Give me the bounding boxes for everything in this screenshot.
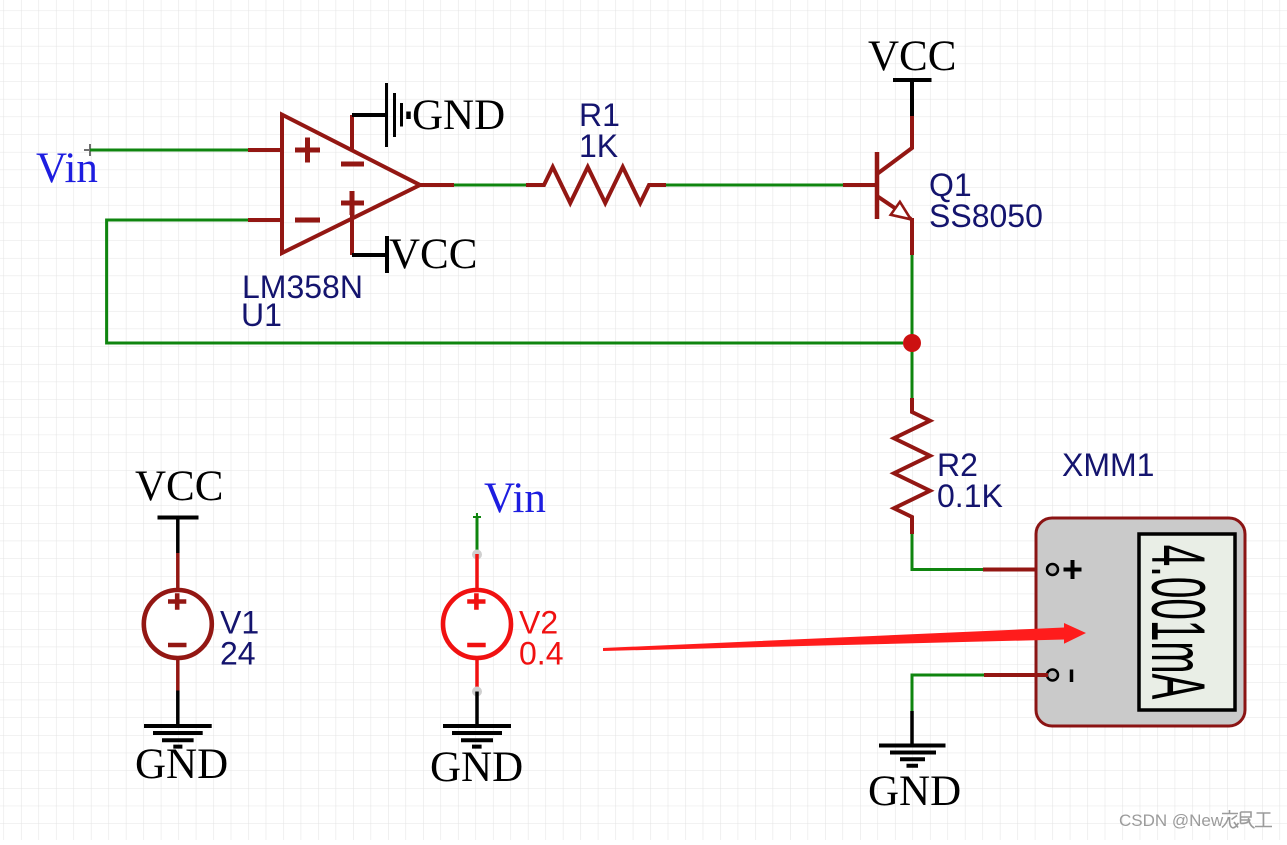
ground symbol (V1) <box>144 726 212 747</box>
wire op-amp - input stub (maroon) <box>248 218 283 222</box>
wire Q1 collector to VCC (black) <box>910 80 914 116</box>
svg-text:0.1K: 0.1K <box>937 478 1003 514</box>
svg-text:1K: 1K <box>579 128 618 164</box>
V2 minus symbol <box>467 643 486 648</box>
transistor Q1 collector <box>877 116 912 174</box>
wire op-amp output to R1 (green) <box>454 184 526 187</box>
svg-text:VCC: VCC <box>389 231 477 278</box>
wire V2 top stub (green) <box>476 517 479 554</box>
wire Vin to op-amp + input (green) <box>90 149 248 152</box>
op-amp V+ supply pin <box>350 215 354 255</box>
svg-text:GND: GND <box>412 92 505 139</box>
wire V1 to GND (black) <box>176 691 180 727</box>
XMM1 + terminal <box>1047 564 1058 575</box>
op-amp V- supply minus symbol <box>341 162 364 167</box>
wire op-amp V+ pin to VCC (black) <box>352 253 387 257</box>
wire Q1 emitter down to junction and R2 (green) <box>911 255 914 398</box>
selection handle dot (V2 bottom) <box>472 687 482 697</box>
svg-text:GND: GND <box>430 744 523 791</box>
svg-text:GND: GND <box>868 768 961 815</box>
svg-text:GND: GND <box>135 741 228 788</box>
wire op-amp + input stub (maroon) <box>248 148 283 152</box>
V2 plus symbol <box>467 593 485 609</box>
op-amp U1 triangle <box>282 115 420 253</box>
svg-text:CSDN @New: CSDN @New <box>1119 811 1224 830</box>
wire V2 to GND (black) <box>475 692 479 727</box>
wire GND lead (black) <box>910 711 914 745</box>
VCC bar (V1) <box>158 516 199 520</box>
op-amp V- supply pin <box>350 115 354 149</box>
op-amp output stub (maroon) <box>420 183 454 187</box>
svg-text:Vin: Vin <box>484 475 546 522</box>
pin cross at Vin wire end <box>84 144 96 156</box>
source V2 circle <box>443 590 511 658</box>
ground symbol (V2) <box>443 726 511 747</box>
V1 plus symbol <box>168 593 186 609</box>
svg-text:0.4: 0.4 <box>519 636 563 672</box>
svg-text:Vin: Vin <box>36 145 98 192</box>
transistor Q1 base bar <box>875 152 880 219</box>
red annotation arrow <box>603 623 1086 651</box>
op-amp + input symbol <box>295 138 320 163</box>
svg-text:XMM1: XMM1 <box>1062 447 1154 483</box>
XMM1 - terminal <box>1047 670 1058 681</box>
op-amp V+ supply plus symbol <box>341 191 364 215</box>
transistor Q1 emitter <box>877 196 911 219</box>
junction dot <box>903 334 921 352</box>
ground symbol (op-amp, sideways) <box>387 83 402 147</box>
svg-text:4.001mA: 4.001mA <box>1136 545 1222 700</box>
selection handle dot (V2 top) <box>472 550 482 560</box>
wire Q1 base stub (maroon) <box>843 183 875 187</box>
wire XMM1 - stub (maroon) <box>984 673 1048 677</box>
wire V2 top lead (red) <box>475 554 479 592</box>
wire V1 bottom lead (maroon then black) <box>176 656 180 691</box>
wire R1 to Q1 base (green) <box>666 184 843 187</box>
resistor R1 <box>526 167 666 203</box>
V1 minus symbol <box>168 643 187 648</box>
VCC bar (Q1) <box>893 78 932 82</box>
wire XMM1 - to GND (green) <box>912 675 984 711</box>
ground symbol (bottom right) <box>879 746 946 766</box>
watermark CJK strokes 农民工 <box>1222 810 1272 828</box>
wire XMM1 + stub (maroon) <box>983 568 1048 572</box>
VCC bar (op-amp) <box>385 236 389 273</box>
wire VCC bar to V1 (black then maroon) <box>176 518 180 554</box>
svg-text:VCC: VCC <box>868 33 956 80</box>
multimeter XMM1 body <box>1036 518 1245 726</box>
wire V2 bottom lead (red) <box>475 656 479 691</box>
op-amp - input symbol <box>295 218 320 223</box>
wire V1 top lead (maroon) <box>176 553 180 592</box>
wire R2 to XMM1 + terminal (green then maroon) <box>912 534 983 570</box>
source V1 circle <box>144 590 212 658</box>
transistor Q1 emitter arrowhead <box>891 202 911 220</box>
svg-text:24: 24 <box>220 636 256 672</box>
XMM1 - terminal label (rotated minus) <box>1070 670 1074 683</box>
XMM1 + terminal label <box>1064 560 1082 579</box>
wire feedback to op-amp - input (green) <box>107 220 903 343</box>
resistor R2 leads and zigzag <box>894 398 930 534</box>
pin cross at V2 top <box>473 513 481 521</box>
svg-text:SS8050: SS8050 <box>929 198 1043 234</box>
wire op-amp V- pin to GND (black) <box>352 113 386 117</box>
svg-text:VCC: VCC <box>135 463 223 510</box>
wire Q1 emitter lead (maroon) <box>910 218 914 255</box>
svg-text:U1: U1 <box>241 297 282 333</box>
multimeter display <box>1139 534 1235 710</box>
